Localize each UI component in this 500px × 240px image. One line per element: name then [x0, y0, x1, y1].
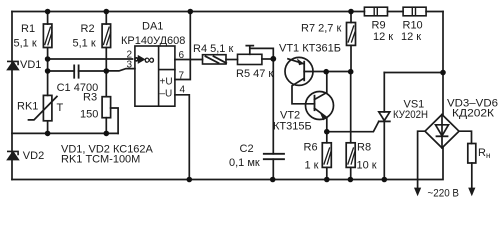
svg-text:RK1 ТСМ-100М: RK1 ТСМ-100М — [61, 154, 140, 166]
svg-text:КР140УД608: КР140УД608 — [121, 35, 185, 47]
svg-text:С1 4700: С1 4700 — [57, 82, 99, 94]
svg-text:R5 47 к: R5 47 к — [236, 68, 273, 80]
svg-text:R4 5,1 к: R4 5,1 к — [193, 43, 233, 55]
svg-text:R6: R6 — [304, 142, 318, 154]
svg-text:Т: Т — [57, 102, 64, 114]
svg-text:R8: R8 — [357, 142, 371, 154]
svg-text:150: 150 — [80, 109, 98, 121]
svg-text:R1: R1 — [21, 23, 35, 35]
svg-text:VD2: VD2 — [23, 150, 44, 162]
svg-text:5,1 к: 5,1 к — [14, 38, 37, 50]
svg-text:–U: –U — [160, 89, 173, 100]
svg-text:+U: +U — [160, 77, 173, 88]
svg-text:R2: R2 — [81, 23, 95, 35]
svg-text:КТ315Б: КТ315Б — [273, 121, 312, 133]
svg-text:12 к: 12 к — [373, 31, 393, 43]
svg-text:4: 4 — [180, 85, 186, 96]
svg-text:3: 3 — [127, 60, 133, 71]
svg-text:R7 2,7 к: R7 2,7 к — [301, 23, 341, 35]
svg-text:R9: R9 — [372, 20, 386, 32]
svg-text:VD1: VD1 — [20, 59, 41, 71]
svg-text:RK1: RK1 — [17, 101, 38, 113]
svg-text:КД202К: КД202К — [452, 108, 495, 120]
svg-text:КУ202Н: КУ202Н — [393, 109, 428, 121]
svg-text:12 к: 12 к — [401, 31, 421, 43]
svg-text:5,1 к: 5,1 к — [73, 38, 96, 50]
svg-text:10 к: 10 к — [357, 160, 377, 172]
svg-text:VT1 КТ361Б: VT1 КТ361Б — [279, 43, 341, 55]
svg-text:R10: R10 — [403, 20, 423, 32]
svg-text:DA1: DA1 — [142, 21, 163, 33]
svg-text:Rн: Rн — [478, 147, 490, 160]
svg-text:~220 В: ~220 В — [428, 188, 460, 200]
svg-text:6: 6 — [179, 50, 185, 61]
svg-text:7: 7 — [179, 71, 185, 82]
svg-text:С2: С2 — [240, 143, 254, 155]
svg-text:∞: ∞ — [144, 52, 155, 69]
svg-text:1 к: 1 к — [305, 160, 319, 172]
svg-text:0,1 мк: 0,1 мк — [229, 157, 260, 169]
